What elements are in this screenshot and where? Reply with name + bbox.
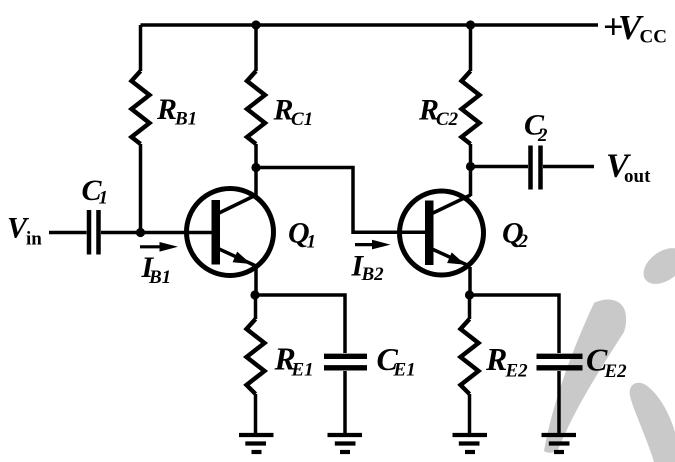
svg-text:E1: E1 [291, 360, 314, 381]
svg-text:E2: E2 [505, 361, 529, 382]
svg-text:2: 2 [537, 125, 548, 146]
svg-text:2: 2 [518, 231, 529, 252]
svg-text:E2: E2 [604, 361, 628, 382]
svg-text:1: 1 [307, 232, 317, 253]
svg-text:R: R [156, 93, 177, 126]
svg-text:1: 1 [99, 188, 109, 209]
svg-text:C1: C1 [291, 109, 313, 130]
svg-text:out: out [624, 166, 651, 187]
svg-text:E1: E1 [393, 360, 416, 381]
svg-text:in: in [26, 229, 42, 250]
svg-text:C2: C2 [436, 109, 459, 130]
svg-text:CC: CC [640, 27, 667, 48]
svg-text:B1: B1 [174, 109, 197, 130]
svg-text:R: R [485, 341, 507, 377]
svg-text:B1: B1 [148, 267, 171, 288]
svg-text:B2: B2 [361, 264, 385, 285]
